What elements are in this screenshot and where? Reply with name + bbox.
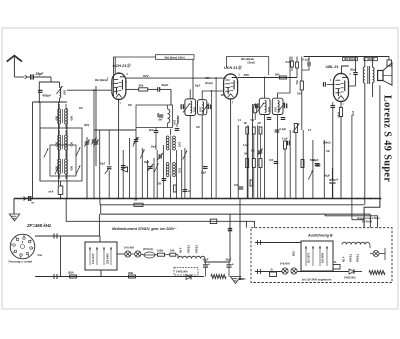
transformer output	[363, 57, 374, 205]
svg-text:50pF: 50pF	[144, 162, 150, 164]
transformer oscillator upper	[166, 136, 175, 150]
capacitor 0.1uF top	[302, 57, 310, 71]
trimmer det	[257, 149, 262, 156]
wire step left	[66, 199, 254, 228]
svg-text:Ausführung B: Ausführung B	[307, 234, 333, 238]
transformer RF band 2	[58, 130, 68, 155]
junction bus	[58, 198, 60, 200]
svg-text:mA: mA	[49, 190, 55, 194]
svg-text:60V: 60V	[143, 74, 149, 78]
junction bus	[86, 198, 88, 200]
svg-text:2×0,45A: 2×0,45A	[280, 262, 290, 266]
svg-text:450pF: 450pF	[41, 94, 51, 98]
wire det vertical 7	[323, 140, 325, 199]
svg-text:Gw: Gw	[38, 253, 43, 257]
box band switch outer	[40, 128, 82, 181]
svg-text:0,1µF: 0,1µF	[303, 58, 310, 62]
selector arrow A0	[89, 247, 91, 265]
selector arrow A1	[96, 247, 98, 265]
svg-text:32µF: 32µF	[203, 258, 209, 262]
transformer RF band 3	[58, 154, 68, 179]
speaker	[378, 63, 392, 199]
svg-text:Fassung v. unten: Fassung v. unten	[9, 260, 33, 264]
junction bus	[340, 198, 342, 200]
coil oscillator	[168, 105, 170, 128]
potentiometer volume	[292, 124, 299, 199]
wire top line right	[304, 56, 389, 58]
switch osc b	[154, 164, 158, 173]
box shield UCH21-2	[226, 57, 268, 75]
wire if1 primary bot	[189, 116, 191, 199]
transformer RF band 1	[58, 104, 68, 129]
svg-text:(2mal): (2mal)	[248, 61, 255, 64]
wire osc transformer link	[169, 150, 171, 163]
junction bus	[155, 198, 157, 200]
svg-text:500: 500	[55, 142, 59, 147]
switch osc a	[140, 150, 144, 159]
svg-text:500: 500	[156, 113, 159, 118]
wire if1 sec bot	[201, 115, 203, 199]
selector arrow B1	[312, 246, 314, 266]
wire selector A drop	[100, 270, 102, 277]
svg-text:(Band): (Band)	[367, 59, 374, 61]
transformer IF2 secondary	[272, 98, 286, 114]
resistor det trio 1	[246, 127, 249, 134]
capacitor 450pF antenna	[38, 82, 43, 92]
tube UBL21	[333, 73, 350, 103]
junction bus	[206, 198, 208, 200]
diode pilot B	[349, 269, 362, 274]
wire band vertical c	[58, 102, 60, 185]
transformer IF2 primary	[256, 98, 270, 114]
wire det vertical 6	[312, 140, 314, 199]
junction bus	[356, 198, 358, 200]
svg-text:4Ω F: 4Ω F	[343, 256, 346, 262]
trimmer wavetrap b	[133, 137, 138, 144]
ground	[9, 214, 19, 221]
wire ubl anode up	[342, 66, 349, 74]
svg-text:UCH 21Ⓢ: UCH 21Ⓢ	[224, 65, 243, 70]
wire mid vertical 5	[153, 158, 155, 199]
capacitor 100pF b	[274, 162, 279, 164]
svg-text:25pF: 25pF	[35, 72, 45, 76]
svg-text:Wel.(Band): Wel.(Band)	[95, 79, 108, 82]
wire mid vertical 2	[135, 128, 137, 199]
trimmer wavetrap a	[91, 138, 96, 145]
svg-text:2×0,45A: 2×0,45A	[124, 246, 134, 250]
svg-text:100Ω: 100Ω	[157, 249, 163, 253]
junction bus	[187, 198, 189, 200]
svg-text:0,1µF: 0,1µF	[243, 145, 249, 147]
wire HT drop	[229, 214, 231, 262]
wire tube1 anode	[126, 77, 226, 79]
box voltage selector B	[301, 241, 333, 271]
lamp scale B2	[291, 268, 297, 274]
resistor 8nF top	[291, 57, 294, 72]
junction bus	[264, 198, 266, 200]
wire tube2 anode	[238, 77, 297, 79]
resistor det b	[284, 141, 287, 199]
tube socket diagram	[10, 234, 35, 259]
wire osc to bus	[155, 140, 157, 150]
junction bus	[363, 198, 365, 200]
wire avc drop b	[211, 91, 213, 199]
wire cap to tuned circuit	[39, 77, 51, 82]
wire wavetrap	[94, 129, 136, 131]
wire mid vertical 9	[181, 150, 183, 199]
svg-text:50µF: 50µF	[324, 174, 331, 178]
wire input loop left	[38, 82, 40, 102]
wire screen down	[170, 89, 172, 105]
wire det vertical 5	[302, 130, 304, 199]
transformer IF1 primary	[181, 99, 195, 116]
wire mains link	[60, 236, 62, 277]
resistor det trio 3	[259, 127, 262, 134]
capacitor 50pF screen	[148, 87, 171, 92]
switch band 2	[55, 166, 59, 175]
selector arrow A3	[110, 247, 112, 265]
svg-text:0,1µF: 0,1µF	[282, 139, 288, 141]
svg-text:1M: 1M	[221, 95, 224, 97]
svg-text:1M: 1M	[244, 123, 247, 125]
trimmer mid a	[148, 164, 153, 171]
svg-text:24V/0,06A: 24V/0,06A	[176, 271, 188, 274]
svg-text:0,1µF: 0,1µF	[312, 158, 319, 162]
switch band 4	[76, 166, 80, 175]
svg-text:(B)A: (B)A	[68, 271, 74, 275]
wire filter gnd	[235, 276, 237, 279]
capacitor 500 osc	[159, 105, 164, 117]
capacitor 25pF coupling	[27, 74, 51, 79]
connector HT drop	[228, 229, 232, 231]
resistor 36	[128, 271, 136, 278]
wire trio stubs	[246, 127, 248, 134]
svg-text:2000: 2000	[297, 94, 303, 96]
diode pilot A	[186, 275, 191, 280]
capacitor 50pF det	[315, 164, 320, 166]
fuse Si B2	[333, 261, 340, 269]
resistor 100ohm	[155, 249, 170, 257]
svg-text:ZF=468 kHz: ZF=468 kHz	[26, 223, 52, 228]
coil 2000 left of if1	[175, 116, 180, 130]
svg-text:2000: 2000	[178, 142, 180, 148]
svg-text:angegossene Netz-: angegossene Netz-	[357, 216, 380, 220]
svg-text:4700: 4700	[337, 112, 340, 118]
wire det vertical 4	[289, 130, 291, 199]
svg-text:50pF: 50pF	[100, 164, 106, 166]
wire mid vertical 1	[129, 138, 131, 199]
svg-text:50pF: 50pF	[350, 68, 357, 72]
svg-text:50k: 50k	[139, 84, 144, 88]
wire mid vertical 10	[184, 148, 186, 199]
resistor 1M if2	[254, 104, 257, 120]
switch mid left	[133, 138, 137, 147]
fuse barretter	[144, 252, 155, 258]
svg-text:8nF: 8nF	[286, 60, 291, 64]
capacitor 500 osc2	[162, 179, 167, 181]
svg-text:Wel.(Band 12kA): Wel.(Band 12kA)	[165, 55, 185, 59]
selector arrow B2	[319, 246, 321, 266]
resistor filter zigzag	[211, 275, 226, 279]
svg-text:50pF: 50pF	[195, 86, 201, 88]
svg-text:2000: 2000	[274, 107, 276, 113]
wire HT riser	[239, 199, 241, 280]
tube UCH21 second	[223, 73, 239, 100]
capacitor if2 b	[281, 118, 286, 120]
tube UCH21 first	[111, 72, 127, 100]
trimmer mid tone	[105, 167, 112, 174]
capacitor 50pF out	[349, 57, 358, 87]
svg-text:100: 100	[269, 159, 274, 162]
wire band vertical a	[32, 102, 34, 199]
svg-text:110-127V: 110-127V	[309, 253, 311, 263]
wire B mains	[255, 271, 282, 273]
svg-text:2M: 2M	[258, 123, 261, 125]
wire lamp B	[370, 253, 373, 255]
wire if2 sec top	[278, 57, 290, 99]
capacitor 0.1 grid	[313, 82, 334, 87]
bracket right edge	[388, 57, 390, 61]
svg-text:40V/0,1: 40V/0,1	[357, 253, 360, 262]
wire det vertical 0	[237, 125, 239, 199]
svg-text:0,1µF: 0,1µF	[280, 127, 287, 131]
svg-text:Si: Si	[334, 261, 337, 264]
svg-text:500: 500	[70, 142, 74, 147]
wire step left2	[245, 221, 247, 227]
resistor screen feed	[296, 57, 299, 78]
fuse mA	[49, 186, 63, 195]
capacitor cathode bypass	[331, 102, 336, 199]
resistor 5k on AVC bus	[134, 198, 143, 207]
wire mid vertical 3	[141, 148, 143, 199]
svg-text:70k: 70k	[295, 80, 299, 85]
switch band 3	[76, 148, 80, 157]
wire mains bottom	[35, 276, 204, 278]
wire if1 primary top	[189, 89, 191, 99]
wire mid vertical 4	[147, 160, 149, 199]
wire band vertical e	[86, 137, 88, 199]
resistor 50k screen	[126, 88, 148, 91]
wire B mains top	[255, 242, 301, 244]
wire tube1 grid left	[67, 89, 111, 91]
lamp pilot B	[373, 251, 379, 257]
wire wavetrap drop	[93, 90, 95, 198]
capacitor det d	[288, 141, 290, 146]
capacitor 0.1 det	[275, 130, 280, 132]
junction tube1	[118, 99, 120, 101]
wire avc drop a	[215, 78, 217, 198]
svg-text:24V/0,06A: 24V/0,06A	[344, 277, 356, 280]
capacitor electrolytic 32uF b	[227, 262, 234, 277]
svg-text:45V: 45V	[243, 73, 250, 77]
svg-text:+: +	[232, 263, 234, 267]
resistor det trio 2	[252, 127, 255, 134]
coil antenna input	[56, 82, 62, 102]
wire if1 sec top	[202, 91, 223, 100]
svg-text:2000: 2000	[193, 107, 195, 113]
selector arrow B0	[305, 246, 307, 266]
wire mains top	[35, 235, 100, 237]
box Ausfuehrung B	[251, 228, 392, 283]
resistor zigzag B	[369, 271, 385, 275]
label box band 1	[156, 55, 195, 60]
switch osc c	[183, 151, 187, 160]
wire heater bus	[101, 213, 371, 215]
connector plug pickup	[24, 197, 26, 201]
wire band vertical f	[95, 86, 97, 166]
connector mains top	[54, 234, 57, 239]
wire avc3 v	[260, 152, 262, 159]
heater chain B	[342, 242, 370, 248]
ground filter	[230, 277, 240, 284]
box oscillator	[136, 105, 173, 128]
wire mA to bus	[60, 181, 62, 186]
capacitor electrolytic 32uF a	[203, 262, 210, 277]
svg-text:500: 500	[70, 116, 74, 121]
resistor AVC 1	[246, 159, 249, 168]
svg-text:28V: 28V	[239, 277, 244, 281]
wire filter top	[204, 261, 230, 263]
svg-text:Si: Si	[271, 269, 274, 272]
svg-text:tw: tw	[32, 202, 35, 205]
wire chassis bus	[14, 198, 380, 200]
svg-text:500: 500	[70, 166, 74, 171]
wire mains into selector	[99, 236, 101, 242]
svg-text:100: 100	[234, 184, 239, 187]
svg-text:40V/0,1: 40V/0,1	[196, 244, 199, 253]
svg-text:Lorenz S 49 Super: Lorenz S 49 Super	[381, 95, 392, 182]
wire det vertical 2	[252, 104, 254, 199]
svg-text:BV2: BV2	[293, 251, 296, 256]
svg-text:500: 500	[55, 116, 59, 121]
label box band 3	[342, 58, 357, 62]
wire mains riser	[98, 214, 100, 236]
resistor BA	[68, 271, 77, 279]
svg-text:50k: 50k	[275, 73, 280, 77]
lamp scale 2	[135, 251, 141, 257]
wire lamp links	[131, 253, 135, 255]
transformer oscillator lower	[166, 163, 175, 177]
resistor 240	[170, 249, 176, 257]
wire mid vertical 6	[156, 150, 158, 199]
fuse step	[210, 219, 217, 223]
junction bus	[66, 198, 68, 200]
selector arrow A2	[103, 247, 105, 265]
trimmer band a	[84, 140, 89, 147]
svg-text:+: +	[208, 263, 210, 267]
svg-text:EI-Teil B: EI-Teil B	[362, 220, 372, 224]
svg-text:50µF: 50µF	[201, 173, 207, 175]
resistor 4700 cathode	[339, 102, 342, 199]
junction bus	[32, 198, 34, 200]
junction bus	[369, 198, 371, 200]
capacitor mid c	[183, 190, 188, 192]
padder trimmer osc	[158, 153, 163, 160]
svg-text:(500): (500)	[84, 125, 89, 127]
lamp scale B1	[282, 268, 288, 274]
wire step mid	[325, 214, 377, 228]
wire ubl extra	[351, 115, 353, 220]
antenna	[7, 56, 22, 77]
svg-text:2000: 2000	[199, 107, 201, 113]
svg-text:Meßinstrument 370Ω/V, gem. bei: Meßinstrument 370Ω/V, gem. bei 220V~	[112, 227, 176, 231]
wire input loop top	[39, 81, 59, 83]
wire det vertical 1	[247, 125, 249, 199]
box band switch inner	[50, 145, 76, 176]
selector arrow B3	[326, 246, 328, 266]
svg-text:8nF: 8nF	[159, 120, 164, 122]
resistor 70k grid	[300, 57, 303, 131]
capacitor 8nF osc	[154, 128, 159, 141]
wire if2 sec bot	[277, 115, 279, 199]
label box band 4	[364, 58, 378, 62]
connector mains bottom	[54, 274, 57, 279]
fuse Si B1	[270, 269, 277, 277]
wire selector to lamps	[117, 253, 125, 255]
junction bus	[284, 198, 286, 200]
wire if2 primary bot	[264, 115, 266, 199]
wire step small	[352, 219, 364, 221]
lamp scale 1	[125, 251, 131, 257]
svg-text:36Ω: 36Ω	[128, 271, 134, 275]
svg-text:500: 500	[63, 90, 67, 95]
svg-text:110-127V: 110-127V	[92, 253, 95, 264]
wire bus left link	[99, 199, 101, 205]
wire step bus1 end	[364, 199, 380, 228]
capacitor if2 a	[267, 118, 272, 120]
switch tone	[308, 171, 312, 180]
svg-text:8nF: 8nF	[149, 128, 154, 132]
heater chain A	[176, 255, 205, 263]
transformer IF1 secondary	[198, 100, 211, 115]
pickup cone	[121, 166, 128, 172]
wire ground riser	[13, 199, 15, 215]
box shield UCH21-1	[114, 57, 193, 99]
junction	[38, 101, 40, 103]
connector B bottom	[258, 269, 261, 274]
wire det vertical 3	[257, 125, 259, 199]
svg-text:2000: 2000	[178, 168, 180, 174]
wire avc2 v	[253, 150, 255, 159]
svg-text:4Ω F: 4Ω F	[180, 247, 183, 253]
wire if2 primary top	[264, 78, 266, 99]
resistor 50k anode	[275, 73, 286, 80]
svg-text:Wel.(Band): Wel.(Band)	[344, 59, 356, 61]
resistor det small	[250, 180, 253, 186]
svg-text:(5kΩ): (5kΩ)	[323, 141, 330, 145]
resistor AVC 2	[252, 159, 255, 168]
svg-text:4700: 4700	[351, 111, 354, 117]
svg-text:2000: 2000	[173, 120, 175, 126]
wire tube2 cathode	[230, 100, 232, 199]
box voltage selector A	[85, 242, 117, 270]
switch band 1	[44, 149, 48, 158]
wire antenna to coupling cap	[14, 76, 24, 78]
trimmer band b	[93, 140, 98, 147]
svg-text:(T2×0,9): (T2×0,9)	[143, 247, 153, 251]
svg-text:220-240V: 220-240V	[322, 252, 325, 263]
wire mid vertical 7	[163, 145, 165, 199]
junction bus	[295, 198, 297, 200]
resistor det c	[301, 160, 304, 168]
wire AVC bus	[100, 204, 364, 206]
svg-text:40V/0,1: 40V/0,1	[188, 244, 191, 253]
wire band vertical b	[39, 102, 41, 181]
connector B top	[258, 240, 261, 245]
wire wavetrap v2	[108, 130, 110, 165]
junction bus	[117, 198, 119, 200]
svg-text:1M: 1M	[244, 154, 247, 156]
